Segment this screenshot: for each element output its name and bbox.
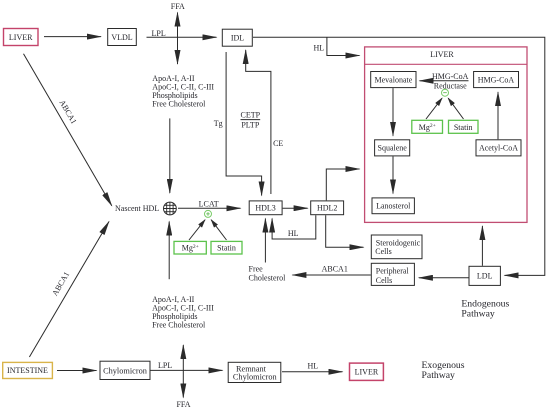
svg-text:INTESTINE: INTESTINE [7, 366, 48, 375]
box Peripheral Cells [371, 263, 414, 285]
wire up arrow lower text block to globe [168, 222, 170, 280]
box INTESTINE [3, 362, 53, 378]
wire Statin to plus arrow [211, 220, 226, 240]
box Steroidogenic Cells [371, 235, 422, 259]
svg-text:HDL2: HDL2 [317, 204, 337, 213]
svg-text:Pathway: Pathway [461, 308, 495, 319]
wire squalene to lanosterol arrow [392, 156, 394, 193]
box LDL [469, 266, 500, 285]
wire FFA double arrow bottom [182, 345, 184, 398]
box HDL3 [249, 201, 282, 215]
wire diagonal ABCA1 intestine to nascent HDL [29, 222, 109, 358]
box Mg2+ centre green [174, 241, 206, 254]
box LIVER bottom right [350, 363, 384, 380]
wire Tg path IDL down to HDL3 [226, 52, 262, 196]
svg-text:Peripheral: Peripheral [376, 267, 410, 276]
svg-text:Cholesterol: Cholesterol [249, 274, 287, 283]
label ApoA block lower [152, 295, 214, 330]
svg-text:HL: HL [308, 361, 319, 370]
svg-text:LCAT: LCAT [199, 199, 219, 208]
svg-text:Pathway: Pathway [422, 370, 456, 381]
box Mg2+ right green [412, 120, 443, 133]
wire remnant to liver arrow [282, 371, 343, 373]
wire diagonal ABCA1 liver to nascent HDL [24, 54, 112, 206]
wire peripheral cells to free cholesterol arrow [292, 274, 370, 276]
svg-text:Cells: Cells [376, 276, 392, 285]
wire LDL up into liver box arrow [481, 226, 483, 266]
label Exogenous Pathway [422, 360, 465, 381]
svg-text:LDL: LDL [477, 272, 493, 281]
wire FFA double arrow top [177, 13, 179, 65]
svg-text:Free Cholesterol: Free Cholesterol [152, 321, 206, 330]
svg-text:VLDL: VLDL [111, 33, 132, 42]
svg-text:Chylomicron: Chylomicron [233, 373, 278, 382]
svg-text:Reductase: Reductase [434, 82, 467, 91]
wire HL branch into liver box [327, 37, 360, 55]
svg-text:Statin: Statin [217, 244, 236, 253]
wire mevalonate to squalene arrow [392, 88, 394, 136]
svg-text:Statin: Statin [454, 123, 473, 132]
svg-text:Tg: Tg [214, 119, 223, 128]
svg-text:CE: CE [273, 139, 283, 148]
wire HDL2 to steroidogenic path [326, 215, 364, 247]
box big pink LIVER [365, 47, 527, 223]
svg-text:ABCA1: ABCA1 [322, 265, 348, 274]
label Endogenous Pathway [461, 299, 509, 320]
svg-text:LIVER: LIVER [430, 50, 454, 59]
label Free Cholesterol [249, 265, 287, 283]
svg-text:Mevalonate: Mevalonate [375, 75, 413, 84]
svg-text:CETP: CETP [241, 111, 261, 120]
box Lanosterol [372, 198, 414, 214]
globe nascent HDL sphere [163, 201, 178, 216]
svg-text:Nascent HDL: Nascent HDL [115, 204, 159, 213]
wire HL path HDL2 down left up into HDL3 [272, 215, 316, 239]
wire apoA block down arrow to globe [169, 118, 171, 193]
box VLDL [108, 29, 137, 46]
box Statin right green [449, 120, 479, 133]
svg-text:Lanosterol: Lanosterol [376, 202, 411, 211]
svg-text:Squalene: Squalene [378, 144, 408, 153]
box HMG-CoA [474, 72, 519, 88]
svg-text:Free Cholesterol: Free Cholesterol [152, 100, 206, 109]
label ApoA block upper [152, 74, 214, 109]
wire chylomicron to remnant arrow [151, 369, 223, 371]
box Statin centre green [211, 241, 242, 254]
svg-text:LPL: LPL [158, 361, 172, 370]
svg-text:HMG-CoA: HMG-CoA [432, 72, 469, 81]
box Squalene [375, 140, 410, 156]
wire reductase to mevalonate arrow [420, 80, 433, 82]
node plus circle green [205, 210, 212, 217]
wire free cholesterol up arrow into HDL3 [264, 219, 266, 263]
node minus circle green [442, 89, 449, 96]
box Remnant Chylomicron [228, 362, 281, 382]
svg-text:LPL: LPL [152, 29, 166, 38]
svg-text:Steroidogenic: Steroidogenic [376, 238, 421, 247]
svg-text:LIVER: LIVER [355, 368, 379, 377]
svg-text:IDL: IDL [231, 34, 244, 43]
svg-text:FFA: FFA [176, 400, 190, 409]
label HMG-CoA Reductase fraction [432, 72, 469, 91]
wire acetyl to HMG arrow [497, 92, 499, 139]
box LIVER top-left [4, 29, 39, 46]
wire LIVER to VLDL arrow [44, 36, 101, 38]
wire Mg right to minus arrow [426, 98, 442, 119]
wire intestine to chylomicron arrow [57, 370, 97, 372]
box Chylomicron [100, 361, 150, 379]
wire Statin right to minus arrow [448, 98, 463, 119]
wire CE path HDL3 up to IDL [246, 50, 271, 194]
svg-text:Free: Free [249, 265, 264, 274]
svg-text:HL: HL [314, 43, 325, 52]
box IDL [222, 29, 252, 46]
svg-text:PLTP: PLTP [241, 120, 259, 129]
wire IDL right long path to LDL [253, 37, 545, 275]
svg-text:HMG-CoA: HMG-CoA [478, 75, 515, 84]
wire LDL to peripheral cells arrow [419, 277, 469, 279]
box HDL2 [311, 201, 344, 215]
svg-text:HDL3: HDL3 [255, 204, 275, 213]
wire Mg to plus arrow [189, 220, 205, 240]
wire VLDL to IDL arrow [147, 36, 217, 38]
wire HDL2 up into liver box [326, 169, 359, 200]
svg-text:Cells: Cells [375, 247, 391, 256]
box Acetyl-CoA [476, 140, 521, 156]
svg-text:Acetyl-CoA: Acetyl-CoA [479, 144, 518, 153]
svg-text:Chylomicron: Chylomicron [103, 366, 148, 375]
label CETP PLTP fraction [241, 111, 261, 130]
box Mevalonate [371, 72, 416, 88]
wire HDL3 to HDL2 arrow [283, 207, 308, 209]
wire LCAT arrow globe to HDL3 [178, 207, 241, 209]
svg-text:LIVER: LIVER [9, 33, 33, 42]
svg-text:FFA: FFA [171, 2, 185, 11]
svg-text:HL: HL [288, 229, 299, 238]
